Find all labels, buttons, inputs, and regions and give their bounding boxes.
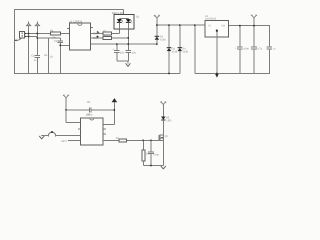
- node C4 junction: [128, 43, 130, 45]
- svg-text:1k: 1k: [50, 56, 53, 59]
- power flag VY1: [154, 15, 160, 25]
- svg-text:4148: 4148: [172, 50, 178, 53]
- wire TX line: [90, 29, 119, 36]
- switch SW1: [42, 131, 81, 136]
- node C2/U1 junction: [60, 45, 62, 47]
- node arrow junction: [114, 109, 116, 111]
- wire LED2 drop: [127, 29, 129, 44]
- wire ground bus B: [195, 73, 270, 75]
- svg-text:C2: C2: [54, 40, 58, 43]
- wire arrow to U3 right pin: [103, 124, 114, 126]
- node D2 bus junction: [156, 43, 158, 45]
- node D2 rail junction: [156, 24, 158, 26]
- net stub label left pin: [62, 140, 81, 143]
- svg-text:D1: D1: [136, 16, 140, 19]
- node D3 rail junction: [168, 24, 170, 26]
- capacitor C9: [148, 140, 159, 165]
- svg-text:4148: 4148: [160, 39, 166, 42]
- wire second supply branch: [37, 37, 60, 39]
- capacitor C3 electrolytic: [113, 44, 125, 61]
- node J1 pin1 junction: [28, 33, 30, 35]
- wire cap bottoms join: [117, 60, 128, 62]
- svg-text:R1: R1: [50, 30, 54, 33]
- node RX junction: [128, 37, 130, 39]
- node J1 pin2 junction: [28, 36, 30, 38]
- connector J1: [20, 31, 38, 38]
- power VCC arrow 1: [26, 22, 30, 74]
- svg-text:U1 12F629: U1 12F629: [69, 21, 83, 24]
- resistor R3: [103, 34, 112, 39]
- ground arrow switch side: [39, 135, 44, 139]
- LED module box: [112, 12, 140, 29]
- capacitor C8 series: [66, 101, 114, 117]
- IC U3: [81, 113, 103, 145]
- wire left loop vertical: [14, 9, 16, 74]
- node D4 rail junction: [179, 24, 181, 26]
- wire gate line: [103, 139, 159, 141]
- resistor R4: [116, 137, 127, 142]
- input flag arrow below J1: [15, 38, 22, 41]
- U3 left stub pin: [78, 128, 81, 130]
- svg-text:Q1: Q1: [165, 135, 169, 138]
- ground arrow bottom right: [161, 166, 166, 169]
- U3 right stub pins: [103, 128, 106, 130]
- node input drop junction: [194, 24, 196, 26]
- capacitor C5: [235, 26, 250, 74]
- resistor R2: [103, 30, 112, 35]
- svg-text:U3: U3: [86, 113, 90, 116]
- wire input rail drop to bus B: [194, 25, 196, 73]
- node C5 rail junction: [239, 25, 241, 27]
- svg-text:VI: VI: [208, 24, 211, 27]
- wire mid bus to D1: [90, 43, 156, 45]
- wire top loop horizontal: [14, 9, 124, 11]
- power flag VY2: [251, 15, 257, 26]
- svg-text:TX: TX: [93, 32, 97, 35]
- svg-text:4.7u: 4.7u: [257, 47, 262, 50]
- wire C2 node to U1: [60, 44, 69, 46]
- svg-text:+: +: [235, 47, 237, 50]
- capacitor C7: [267, 47, 276, 74]
- node R5 junction: [143, 140, 145, 142]
- LED D1a: [117, 19, 129, 29]
- wire output rail corner down: [268, 26, 270, 47]
- node rail junction: [150, 165, 152, 167]
- U1 left stub pin: [67, 28, 70, 30]
- IC U1: [69, 21, 91, 50]
- svg-text:1n: 1n: [34, 59, 37, 62]
- regulator U2: [205, 15, 229, 37]
- svg-text:C1: C1: [31, 55, 35, 58]
- LED D1b: [126, 19, 134, 29]
- wire output rail: [229, 25, 270, 27]
- svg-text:100n: 100n: [153, 153, 159, 156]
- power VCC arrow 2: [35, 22, 39, 56]
- svg-text:VO: VO: [221, 24, 225, 27]
- U1 right stub pin: [90, 27, 93, 29]
- capacitor C4 electrolytic: [126, 44, 137, 61]
- power flag VY3: [63, 95, 69, 110]
- capacitor C1: [31, 55, 40, 74]
- wire input rail: [157, 24, 206, 26]
- svg-text:R2: R2: [103, 30, 107, 33]
- ground arrow mid: [126, 61, 131, 66]
- node C9 junction: [150, 140, 152, 142]
- svg-text:UA78L05: UA78L05: [205, 17, 216, 20]
- svg-text:RED-LED: RED-LED: [112, 12, 124, 15]
- node VCC2/R1 wire junction: [37, 33, 39, 35]
- capacitor C6: [251, 26, 263, 74]
- resistor R5 vertical: [142, 140, 151, 165]
- power arrow solid: [112, 98, 118, 125]
- svg-text:10u: 10u: [120, 52, 125, 55]
- transistor Q1: [159, 135, 169, 142]
- diode D3: [167, 25, 178, 73]
- node C3 junction: [116, 43, 118, 45]
- svg-text:RX: RX: [93, 37, 97, 40]
- wire RX line: [90, 36, 128, 40]
- svg-text:LED: LED: [167, 120, 172, 123]
- diode D5 LED: [161, 117, 172, 166]
- power flag VY4: [160, 101, 166, 116]
- svg-text:100n: 100n: [243, 47, 249, 50]
- resistor R1: [50, 30, 60, 40]
- diode D2: [155, 25, 167, 44]
- capacitor C2: [54, 38, 63, 74]
- svg-text:R3: R3: [103, 34, 107, 37]
- wire VY3 to U3: [66, 110, 81, 123]
- svg-text:4148: 4148: [182, 50, 188, 53]
- node VCC2 lower wire junction: [37, 37, 39, 39]
- wire drop into LED box: [123, 10, 125, 19]
- wire VCC to R1 to U1: [37, 33, 69, 35]
- diode D4: [178, 25, 189, 73]
- resistor R6 vertical drop: [44, 38, 53, 74]
- node regulator ground bus junction: [216, 73, 218, 75]
- svg-text:GP3: GP3: [62, 140, 68, 143]
- wire bottom rail: [143, 165, 163, 167]
- svg-text:10u: 10u: [132, 52, 137, 55]
- node D3 bus junction: [168, 73, 170, 75]
- node C6 rail junction: [253, 25, 255, 27]
- svg-text:R6: R6: [44, 54, 48, 57]
- svg-text:1u: 1u: [273, 47, 276, 50]
- wire regulator ground pin: [215, 37, 219, 78]
- node VY3 junction: [65, 109, 67, 111]
- svg-text:C8: C8: [87, 101, 91, 104]
- wire ground bus A: [14, 73, 180, 75]
